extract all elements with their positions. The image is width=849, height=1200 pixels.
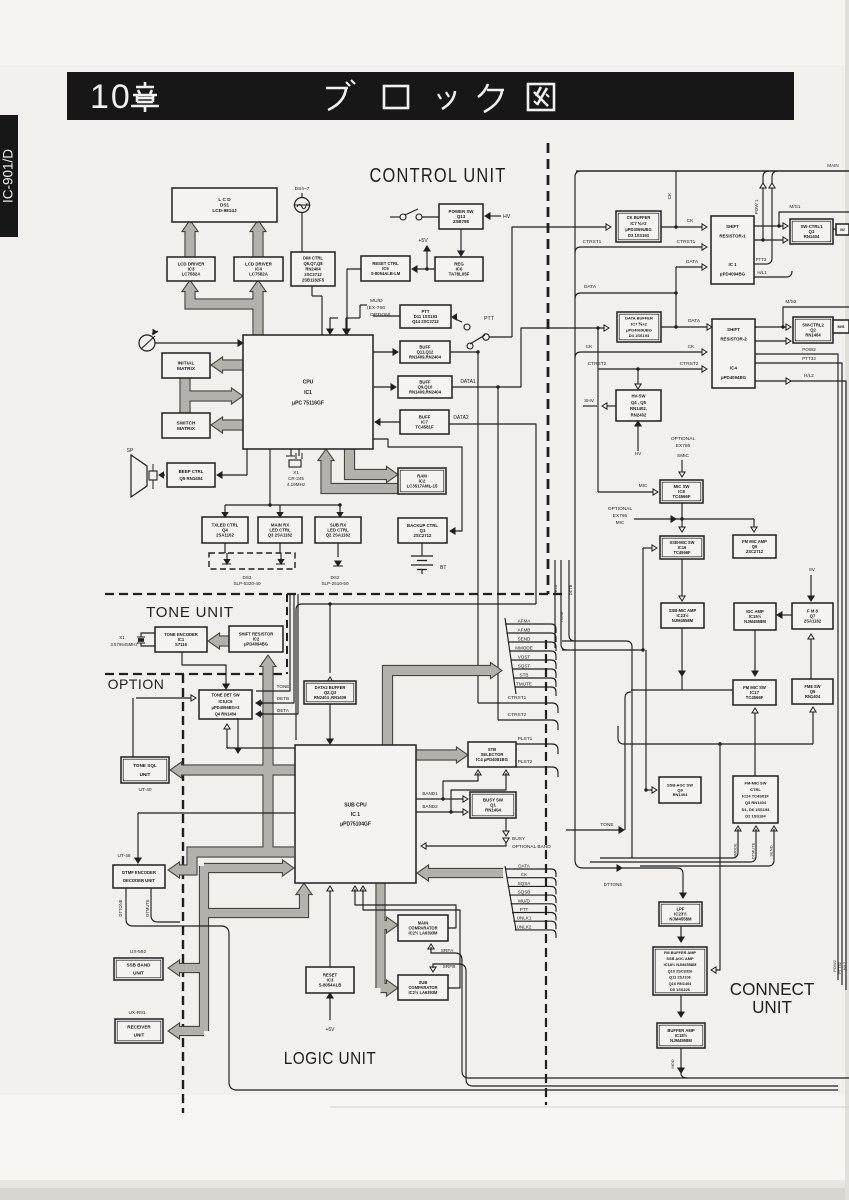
svg-text:10: 10 [90,78,132,116]
svg-text:+5V: +5V [418,238,428,244]
svg-text:FM BUFFER AMP: FM BUFFER AMP [664,950,696,955]
svg-text:LC7582A: LC7582A [182,272,202,277]
svg-text:Q4 , Q5: Q4 , Q5 [631,400,647,405]
svg-text:M/S: M/S [837,324,844,329]
svg-text:MU/D: MU/D [518,898,530,903]
svg-text:DS4~7: DS4~7 [295,186,310,192]
svg-text:UNLK1: UNLK1 [517,916,532,921]
svg-text:CTRST1: CTRST1 [508,695,527,701]
svg-text:μPD4069UBG: μPD4069UBG [626,327,652,332]
svg-text:Q14 2SC2712: Q14 2SC2712 [412,319,439,324]
svg-text:2SB1182F5: 2SB1182F5 [302,278,325,283]
svg-text:UNIT: UNIT [134,1033,145,1038]
svg-text:S7116: S7116 [175,642,188,647]
svg-text:UX-R91: UX-R91 [128,1010,145,1016]
svg-text:RN2404 ,RN1409: RN2404 ,RN1409 [314,695,347,700]
svg-text:RESISTOR-1: RESISTOR-1 [719,233,746,238]
svg-text:OPTION: OPTION [108,676,165,692]
svg-text:(EX-766: (EX-766 [367,305,385,311]
svg-text:OPTION): OPTION) [370,312,391,318]
svg-text:μPD4066BG×2: μPD4066BG×2 [211,705,240,710]
svg-text:Q3 2SA1162: Q3 2SA1162 [268,533,293,538]
svg-text:MIC: MIC [616,520,625,526]
svg-text:SEND: SEND [769,845,774,856]
svg-text:DATA: DATA [686,259,699,265]
svg-text:DS2: DS2 [331,575,340,580]
svg-text:SEND: SEND [518,637,531,642]
svg-text:BUSY: BUSY [512,836,526,842]
svg-text:FM-MIC SW: FM-MIC SW [745,780,767,785]
svg-text:D2 1SS184: D2 1SS184 [745,813,766,818]
svg-text:PLST1: PLST1 [518,736,533,742]
svg-text:Q5 RN1404: Q5 RN1404 [179,476,203,481]
svg-text:TA78L05F: TA78L05F [449,272,470,277]
svg-text:DATA: DATA [584,284,597,290]
svg-text:4.19MHz: 4.19MHz [287,482,306,487]
svg-text:X1: X1 [119,635,125,640]
svg-text:D3 1SS193: D3 1SS193 [628,233,650,238]
svg-text:OPTIONAL: OPTIONAL [671,436,696,442]
svg-text:MOD: MOD [670,1059,675,1068]
svg-text:SHIFT: SHIFT [727,327,740,332]
svg-text:CONTROL UNIT: CONTROL UNIT [369,163,506,186]
svg-text:M/S1: M/S1 [789,204,801,210]
svg-text:HV: HV [635,451,642,457]
svg-text:S-8054ALB: S-8054ALB [319,983,342,988]
svg-text:RN1409,RN2404: RN1409,RN2404 [409,389,442,394]
svg-text:2SA1162: 2SA1162 [804,618,822,623]
svg-text:2SC2712: 2SC2712 [304,272,322,277]
svg-text:CTRST1: CTRST1 [677,239,696,245]
svg-text:DATA BUFFER: DATA BUFFER [625,316,653,321]
svg-text:μPD4094BG: μPD4094BG [720,271,746,276]
svg-text:Q6,Q7,Q8: Q6,Q7,Q8 [303,261,323,266]
svg-text:μPC 75116GF: μPC 75116GF [292,400,324,406]
svg-text:RN1409,RN2404: RN1409,RN2404 [409,354,442,359]
svg-text:STB: STB [520,673,529,678]
svg-text:RN1404: RN1404 [805,332,821,337]
svg-text:TONE: TONE [277,684,290,689]
svg-text:MIC: MIC [639,483,648,489]
svg-text:CK: CK [521,872,528,877]
svg-text:LCD-9814J: LCD-9814J [212,208,237,213]
svg-text:DTMUTE: DTMUTE [751,842,756,859]
svg-text:S-8054ALB-LM: S-8054ALB-LM [371,271,401,276]
svg-text:2SA1162: 2SA1162 [216,533,234,538]
svg-text:D1, D6 1SS193: D1, D6 1SS193 [742,807,771,812]
svg-text:CK: CK [667,192,673,199]
svg-text:PTT: PTT [484,316,495,322]
svg-text:BEEP CTRL: BEEP CTRL [179,469,204,474]
svg-text:IC2½ LA6393M: IC2½ LA6393M [409,930,438,935]
svg-text:BAND2: BAND2 [422,804,438,809]
svg-text:μPD4069UBG: μPD4069UBG [625,227,651,232]
svg-text:μPD75104GF: μPD75104GF [340,821,371,827]
svg-text:IC7 ⅙×2: IC7 ⅙×2 [631,322,648,327]
svg-text:UNIT: UNIT [752,997,792,1018]
svg-text:UNIT: UNIT [133,971,144,976]
svg-text:CK: CK [688,344,695,350]
svg-text:DATA: DATA [688,318,701,324]
svg-text:D4 1SS193: D4 1SS193 [629,333,650,338]
svg-text:SLP-2510-50: SLP-2510-50 [321,581,349,586]
svg-text:OPTIONAL: OPTIONAL [608,506,633,512]
svg-text:NJM4558M: NJM4558M [672,618,694,623]
svg-text:PTT32: PTT32 [802,356,816,361]
svg-text:CTRST2: CTRST2 [588,361,607,367]
svg-text:MAIN: MAIN [827,163,838,168]
svg-text:8V: 8V [809,567,816,573]
svg-text:POW2: POW2 [802,347,816,352]
svg-text:IC18½ NJM4558M: IC18½ NJM4558M [664,962,697,967]
svg-text:MU/D: MU/D [370,298,383,304]
svg-text:SMIC: SMIC [677,453,690,459]
svg-text:SSB BAND: SSB BAND [127,963,152,968]
svg-text:DATA1: DATA1 [460,379,476,385]
svg-text:RN2402: RN2402 [631,412,647,417]
svg-text:OPTIONAL BAND: OPTIONAL BAND [512,844,551,850]
svg-text:IC 1: IC 1 [351,812,360,818]
svg-text:Q4 RN1404: Q4 RN1404 [215,711,237,716]
svg-text:IC5,IC6: IC5,IC6 [219,699,234,704]
svg-text:DTMUTE: DTMUTE [145,899,150,917]
svg-text:UNLK2: UNLK2 [517,924,532,929]
svg-text:PTT3: PTT3 [756,257,767,262]
svg-text:μPD4094BG: μPD4094BG [721,375,747,380]
svg-text:IC7 ⅙×2: IC7 ⅙×2 [630,221,647,226]
svg-text:IC2½ LA6393M: IC2½ LA6393M [409,990,438,995]
svg-text:SUB CPU: SUB CPU [344,802,367,808]
svg-text:CK: CK [687,218,694,224]
svg-text:DIM CTRL: DIM CTRL [303,255,323,260]
svg-text:POW 1: POW 1 [754,199,759,214]
svg-text:IC1: IC1 [304,390,312,396]
svg-text:INITIAL: INITIAL [178,360,195,366]
svg-text:TMUTE: TMUTE [516,682,532,687]
svg-text:M/S2: M/S2 [785,299,797,305]
svg-text:RN1404: RN1404 [485,808,501,813]
svg-text:PLST2: PLST2 [518,759,533,765]
svg-text:RN1402,: RN1402, [630,406,647,411]
svg-text:TONE SQL: TONE SQL [133,763,157,768]
svg-text:IC4 μPD4081BG: IC4 μPD4081BG [476,757,508,762]
svg-text:L C D: L C D [218,197,231,202]
svg-text:DATA2: DATA2 [453,415,469,421]
svg-text:HV: HV [503,214,511,220]
svg-text:TC4566F: TC4566F [673,550,691,555]
svg-text:DTTONE: DTTONE [604,882,623,887]
svg-text:+5V: +5V [325,1027,335,1033]
svg-text:IC-901/D: IC-901/D [1,149,16,203]
svg-text:PTT: PTT [520,907,529,912]
svg-text:DS1: DS1 [220,203,230,208]
svg-text:2SB798: 2SB798 [453,219,469,224]
svg-text:DTMF ENCODER: DTMF ENCODER [122,870,156,875]
svg-text:CTRST2: CTRST2 [508,712,527,718]
svg-text:CTRST2: CTRST2 [680,361,699,367]
svg-text:AFMB: AFMB [518,628,531,633]
svg-text:H/L2: H/L2 [842,961,847,970]
svg-text:UX-592: UX-592 [130,949,147,955]
svg-text:SSB AGC AMP: SSB AGC AMP [666,956,694,961]
svg-text:SP: SP [127,448,134,454]
svg-text:IC24 TC4S01F: IC24 TC4S01F [742,794,769,799]
svg-text:LC3517AML-15: LC3517AML-15 [407,484,438,489]
svg-text:2SC2712: 2SC2712 [746,549,764,554]
svg-text:TONE DET SW: TONE DET SW [211,692,239,697]
svg-text:HV-SW: HV-SW [631,394,646,399]
svg-text:BAND1: BAND1 [422,791,438,796]
svg-text:RECEIVER: RECEIVER [127,1025,151,1030]
svg-text:SLP-5320-40: SLP-5320-40 [233,581,261,586]
svg-text:TC4566F: TC4566F [673,494,691,499]
svg-text:SHIFT: SHIFT [726,224,739,229]
svg-text:TC4566F: TC4566F [746,695,764,700]
svg-text:D5 1SS226: D5 1SS226 [670,987,691,992]
svg-text:μPD4094BG: μPD4094BG [244,641,268,646]
svg-text:H/L1: H/L1 [757,270,767,275]
svg-text:X1: X1 [293,470,299,475]
svg-text:EX766: EX766 [676,443,691,449]
svg-text:EX766: EX766 [613,513,628,519]
svg-text:IC 1: IC 1 [728,262,737,267]
svg-text:NJM4558M: NJM4558M [744,619,766,624]
svg-text:RN1404: RN1404 [673,792,688,797]
svg-text:DTTONE: DTTONE [118,899,123,916]
svg-text:DETB: DETB [277,696,289,701]
svg-text:DECODER UNIT: DECODER UNIT [123,878,155,883]
svg-text:TONE UNIT: TONE UNIT [146,604,234,621]
svg-text:SQSB: SQSB [518,890,531,895]
svg-text:RESISTOR-2: RESISTOR-2 [720,337,747,342]
svg-text:TONE: TONE [600,822,613,828]
svg-text:SQSA: SQSA [518,881,532,886]
svg-text:AFMA: AFMA [518,619,532,624]
svg-text:SHV: SHV [584,398,595,404]
svg-text:Q3 RN1404: Q3 RN1404 [745,800,767,805]
svg-text:BT: BT [440,565,446,571]
svg-text:Q2 2SA1162: Q2 2SA1162 [326,533,351,538]
svg-text:CPU: CPU [303,379,314,385]
svg-text:LC7582A: LC7582A [249,272,269,277]
svg-text:TC4581F: TC4581F [415,425,434,430]
svg-text:MATRIX: MATRIX [177,426,196,432]
svg-text:SQST: SQST [518,664,531,669]
svg-text:NJM4558M: NJM4558M [669,917,692,922]
svg-text:VOST: VOST [518,655,531,660]
svg-text:2SC2712: 2SC2712 [414,533,433,538]
svg-text:H/L2: H/L2 [804,373,814,378]
svg-text:LOGIC UNIT: LOGIC UNIT [284,1049,376,1068]
svg-text:DETA: DETA [277,708,290,713]
svg-text:MATRIX: MATRIX [177,366,196,372]
svg-text:CR-245: CR-245 [288,476,304,481]
svg-text:CK: CK [586,344,593,350]
svg-text:MMODE: MMODE [515,646,533,651]
svg-text:NJM4558M: NJM4558M [670,1038,692,1043]
svg-text:UT-48: UT-48 [117,853,130,859]
svg-text:RN1404: RN1404 [804,234,820,239]
svg-text:IC4: IC4 [730,365,737,370]
svg-text:CTRST1: CTRST1 [583,239,602,245]
svg-text:3.579545MHz: 3.579545MHz [110,642,137,647]
svg-text:Q11 2SJ106: Q11 2SJ106 [669,975,691,980]
svg-text:DS3: DS3 [243,575,252,580]
svg-text:CK BUFFER: CK BUFFER [627,215,651,220]
svg-text:SRFB: SRFB [443,964,456,970]
svg-text:CTRL: CTRL [750,787,761,792]
svg-text:SWITCH: SWITCH [177,420,196,426]
svg-text:Q10 2SC3326: Q10 2SC3326 [668,968,693,973]
svg-text:UNIT: UNIT [140,772,151,777]
svg-text:Q16 RN1404: Q16 RN1404 [669,981,693,986]
svg-text:RN2404: RN2404 [305,266,321,271]
svg-text:RN1404: RN1404 [805,694,821,699]
svg-text:DATA: DATA [518,864,531,869]
svg-text:UT-40: UT-40 [138,787,151,793]
